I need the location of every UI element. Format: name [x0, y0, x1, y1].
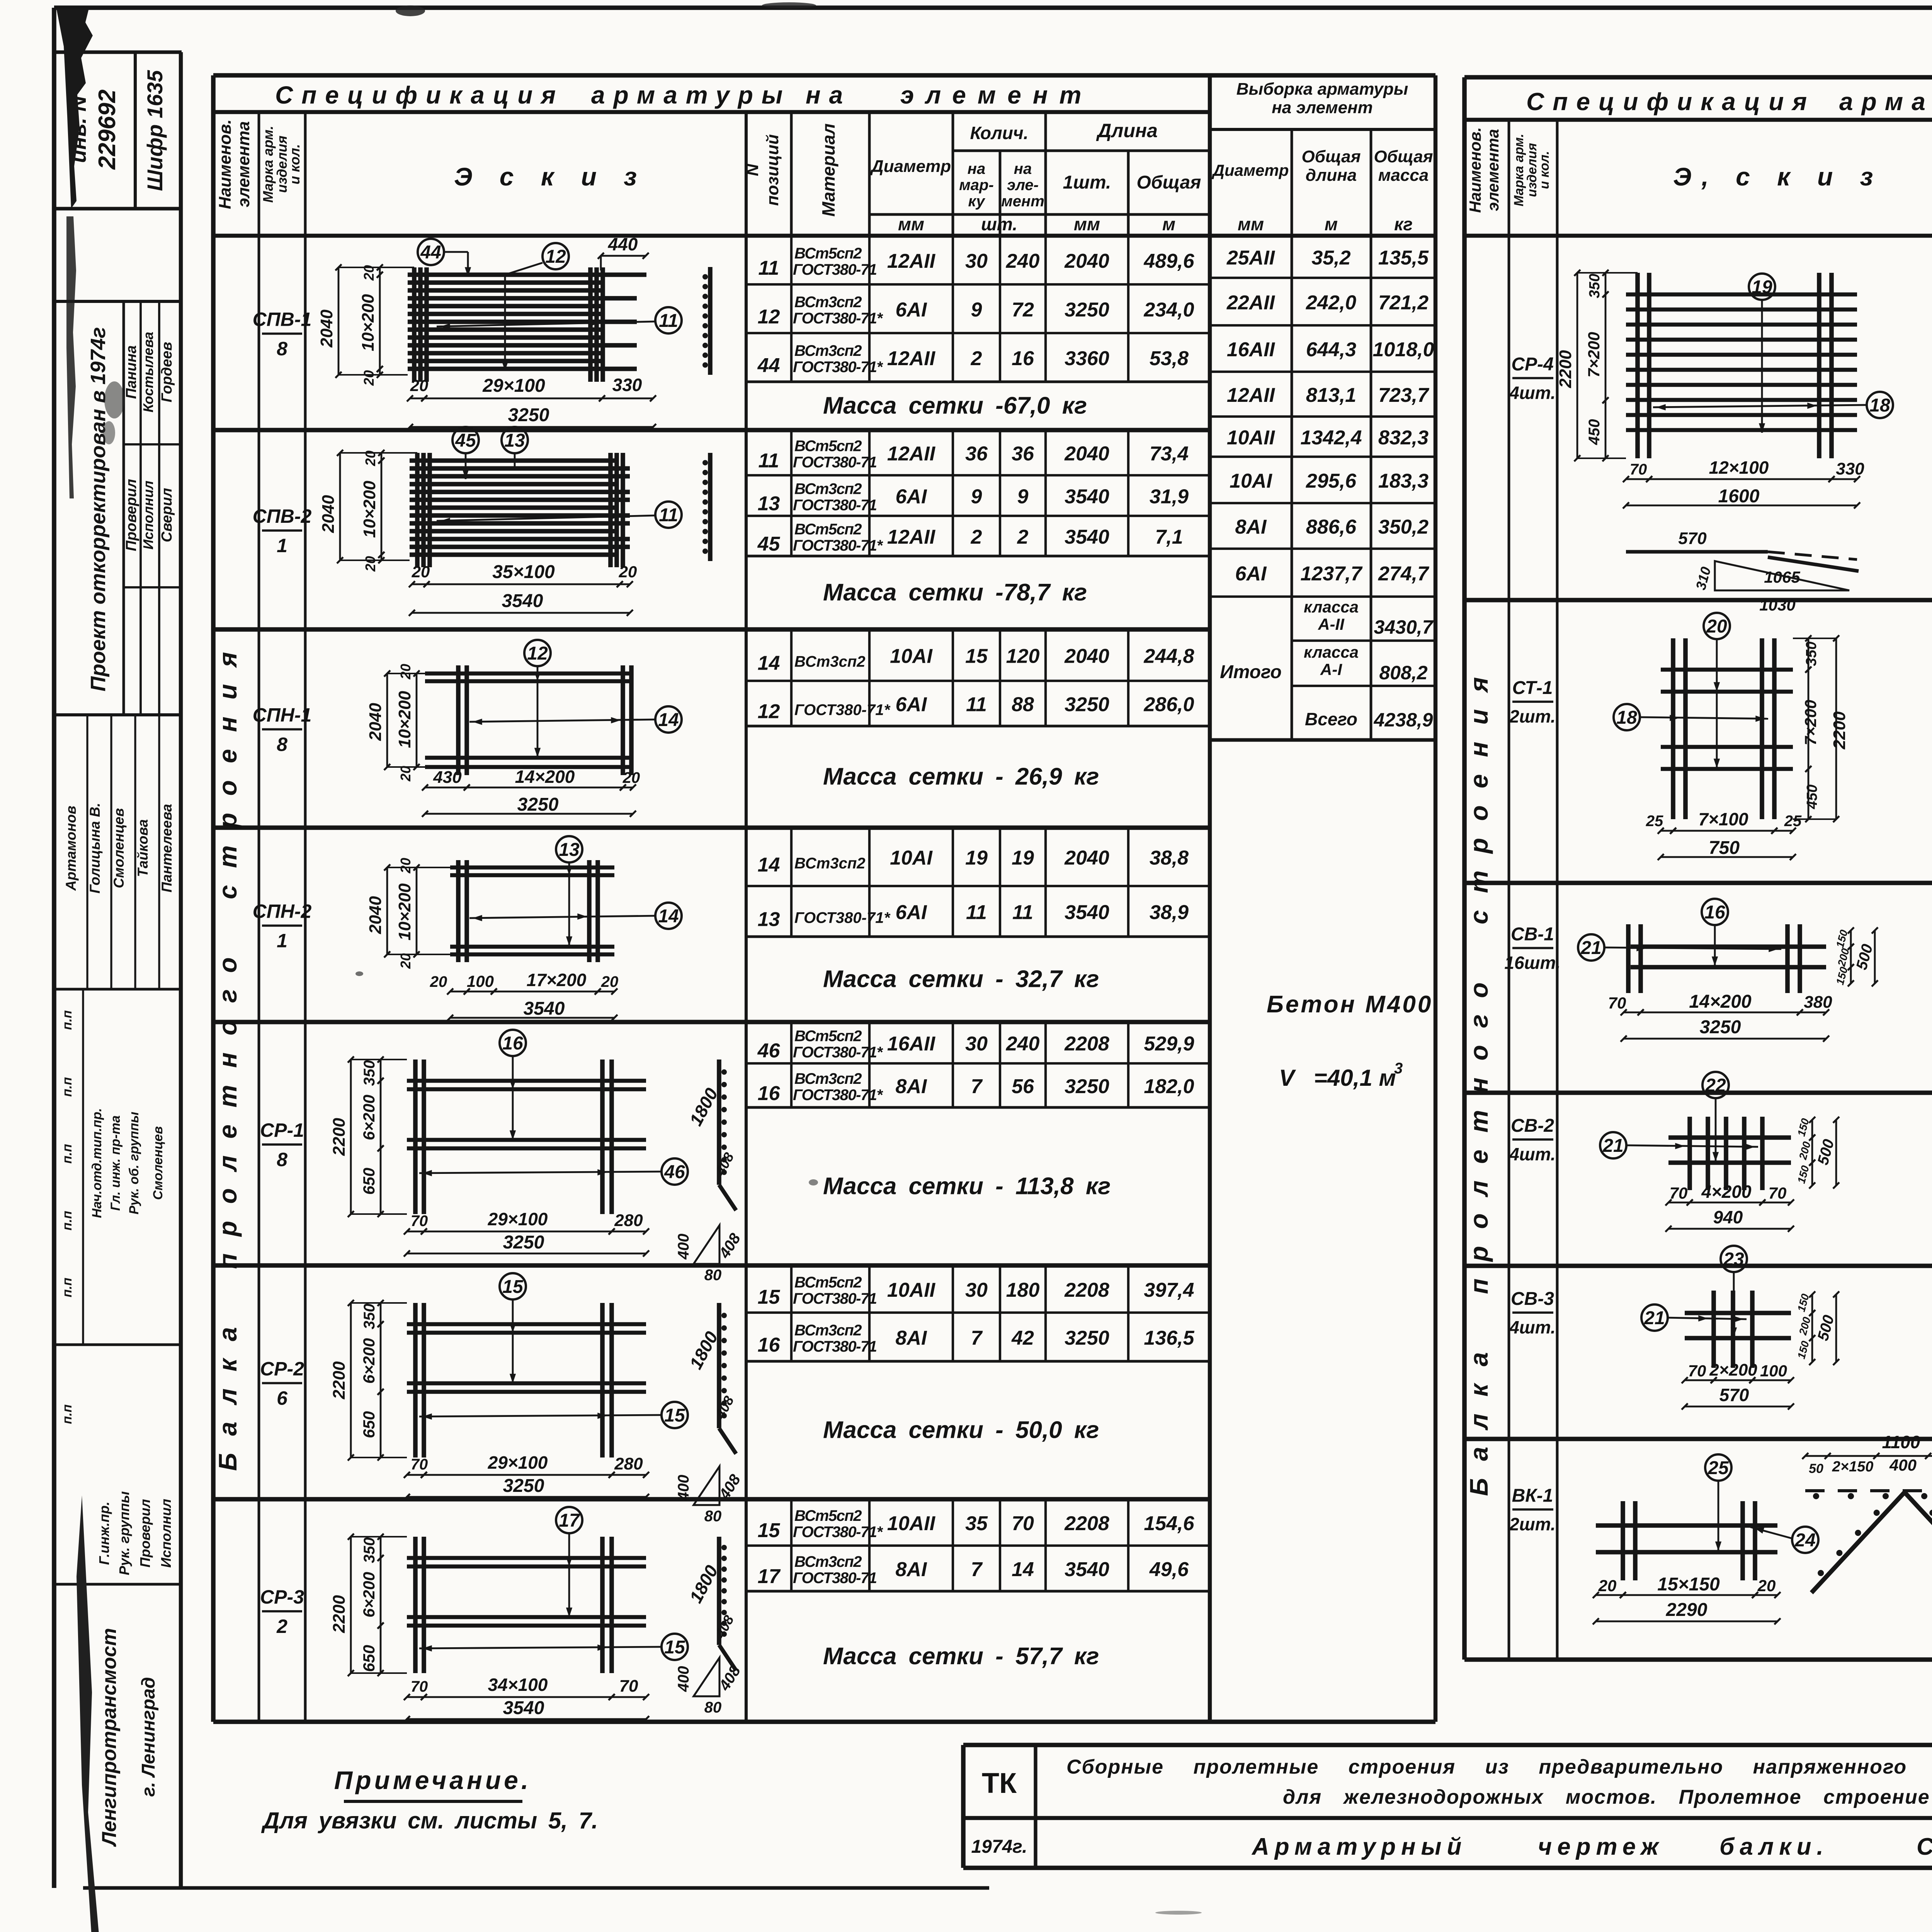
svg-text:Масса сетки -78,7 кг: Масса сетки -78,7 кг [823, 579, 1087, 606]
svg-text:650: 650 [360, 1645, 378, 1672]
svg-text:ГОСТ380-71*: ГОСТ380-71* [793, 359, 883, 376]
svg-text:16: 16 [1704, 902, 1725, 923]
svg-text:180: 180 [1006, 1279, 1040, 1301]
svg-text:229692: 229692 [94, 90, 121, 170]
svg-text:4×200: 4×200 [1701, 1182, 1752, 1202]
svg-text:8: 8 [277, 734, 287, 755]
left table element label СПВ-1/8 [253, 309, 312, 360]
svg-text:6АI: 6АI [896, 486, 927, 508]
svg-text:2шт.: 2шт. [1509, 706, 1556, 726]
right spec table outer frame and header row [1464, 77, 1932, 1660]
svg-text:СПН-1: СПН-1 [253, 704, 312, 726]
svg-text:1: 1 [277, 535, 287, 556]
svg-text:11: 11 [759, 257, 779, 279]
svg-text:Проверил: Проверил [137, 1499, 153, 1567]
svg-text:20: 20 [622, 769, 640, 786]
svg-text:16АII: 16АII [887, 1033, 936, 1055]
svg-text:14: 14 [758, 854, 780, 876]
svg-text:ВСт5сп2: ВСт5сп2 [794, 1507, 862, 1524]
svg-text:2200: 2200 [1830, 711, 1849, 750]
svg-text:450: 450 [1586, 419, 1603, 446]
svg-text:Ленгипротрансмост: Ленгипротрансмост [98, 1628, 121, 1847]
svg-text:СПН-2: СПН-2 [253, 901, 312, 922]
svg-text:650: 650 [360, 1411, 378, 1438]
svg-text:88: 88 [1012, 694, 1034, 716]
svg-text:ГОСТ380-71*: ГОСТ380-71* [793, 1087, 883, 1104]
sketch СПВ-1 dense mesh with bars pos 11/12/44 [317, 234, 710, 430]
svg-text:п.п: п.п [60, 1211, 75, 1230]
svg-text:15×150: 15×150 [1657, 1574, 1720, 1595]
svg-text:12АII: 12АII [887, 443, 936, 465]
svg-text:16АII: 16АII [1227, 338, 1276, 361]
svg-text:10АI: 10АI [890, 645, 933, 668]
left table block СПВ-1 data rows [746, 236, 1210, 419]
svg-text:70: 70 [1670, 1184, 1688, 1202]
left spec table outer frame and header row [213, 75, 1435, 1722]
svg-text:14×200: 14×200 [515, 767, 575, 787]
svg-text:Проверил: Проверил [123, 479, 139, 551]
svg-text:70: 70 [619, 1677, 638, 1696]
svg-text:Диаметр: Диаметр [1212, 161, 1289, 179]
svg-text:244,8: 244,8 [1143, 645, 1194, 668]
svg-text:15: 15 [502, 1277, 524, 1297]
svg-text:35,2: 35,2 [1311, 247, 1350, 269]
svg-text:15: 15 [758, 1519, 781, 1542]
svg-text:286,0: 286,0 [1143, 694, 1194, 716]
svg-text:20: 20 [601, 973, 619, 990]
svg-text:Марка арм.: Марка арм. [1512, 134, 1526, 206]
svg-text:940: 940 [1713, 1207, 1743, 1227]
svg-text:808,2: 808,2 [1379, 662, 1427, 684]
svg-text:330: 330 [1836, 459, 1864, 478]
svg-text:16: 16 [502, 1033, 523, 1054]
svg-text:570: 570 [1719, 1385, 1749, 1405]
svg-text:135,5: 135,5 [1378, 247, 1429, 269]
svg-text:2040: 2040 [366, 703, 385, 741]
svg-text:20: 20 [410, 376, 429, 395]
svg-text:11: 11 [659, 505, 678, 526]
svg-text:2×200: 2×200 [1709, 1361, 1757, 1379]
svg-text:2290: 2290 [1666, 1600, 1708, 1620]
svg-text:136,5: 136,5 [1144, 1327, 1194, 1349]
svg-text:3540: 3540 [524, 998, 565, 1019]
svg-text:2: 2 [971, 347, 982, 370]
svg-text:2040: 2040 [319, 495, 338, 533]
note Примечание [261, 1766, 598, 1833]
svg-text:100: 100 [1760, 1362, 1787, 1380]
svg-text:38,8: 38,8 [1150, 847, 1189, 869]
svg-text:2шт.: 2шт. [1509, 1514, 1556, 1534]
svg-text:20: 20 [362, 556, 378, 572]
svg-text:Общая: Общая [1137, 172, 1201, 193]
svg-text:46: 46 [757, 1040, 781, 1062]
svg-text:на: на [806, 81, 851, 109]
svg-text:70: 70 [1688, 1362, 1706, 1380]
svg-text:2: 2 [276, 1616, 287, 1637]
svg-text:для железнодорожных мостов.: для железнодорожных мостов. Пролетное ст… [1283, 1786, 1932, 1808]
svg-text:ГОСТ380-71*: ГОСТ380-71* [794, 910, 891, 927]
svg-text:350: 350 [1803, 641, 1820, 666]
svg-text:38,9: 38,9 [1150, 901, 1189, 924]
svg-text:29×100: 29×100 [482, 376, 545, 396]
svg-text:813,1: 813,1 [1306, 384, 1356, 406]
sketch СР-1 mesh pos 16/46 with section detail [330, 1030, 744, 1284]
svg-text:20: 20 [398, 766, 413, 782]
svg-text:А-I: А-I [1320, 660, 1342, 679]
svg-text:кг: кг [1394, 214, 1413, 234]
svg-text:ГОСТ380-71: ГОСТ380-71 [793, 1290, 877, 1307]
svg-text:25: 25 [1708, 1458, 1729, 1478]
sketch СПН-2 sparse mesh pos 13/14 [366, 836, 682, 1021]
svg-text:ГОСТ380-71: ГОСТ380-71 [793, 454, 877, 471]
scan paper edge streak bottom left [77, 1495, 100, 1932]
svg-text:20: 20 [398, 953, 413, 969]
left table block СПВ-2 data rows [213, 430, 1210, 606]
svg-text:750: 750 [1709, 838, 1740, 858]
svg-text:Гордеев: Гордеев [159, 342, 175, 403]
svg-text:на элемент: на элемент [1272, 98, 1373, 117]
svg-text:120: 120 [1006, 645, 1040, 668]
svg-text:3540: 3540 [502, 591, 543, 611]
svg-text:Нач.отд.тип.пр.: Нач.отд.тип.пр. [90, 1108, 104, 1218]
svg-text:м: м [1325, 214, 1338, 234]
svg-text:12АII: 12АII [887, 347, 936, 370]
svg-text:Для увязки см. листы 5, 7.: Для увязки см. листы 5, 7. [261, 1808, 598, 1833]
svg-text:7,1: 7,1 [1155, 526, 1183, 548]
svg-text:20: 20 [412, 563, 430, 581]
svg-text:1030: 1030 [1759, 596, 1795, 614]
svg-text:17: 17 [758, 1565, 781, 1588]
svg-text:Спецификация: Спецификация [275, 81, 564, 109]
svg-text:Пантелеева: Пантелеева [159, 804, 175, 892]
svg-text:Балка пролетного строения: Балка пролетного строения [213, 635, 242, 1471]
svg-text:3250: 3250 [503, 1232, 544, 1253]
svg-text:ГОСТ380-71: ГОСТ380-71 [793, 497, 877, 514]
svg-text:15: 15 [664, 1405, 685, 1426]
svg-text:7×200: 7×200 [1801, 700, 1820, 745]
svg-text:3250: 3250 [1065, 1327, 1109, 1349]
stamp column: names row Артамонов..Пантелеева [54, 715, 181, 989]
svg-text:Масса сетки - 113,8 кг: Масса сетки - 113,8 кг [823, 1173, 1111, 1200]
svg-text:3430,7: 3430,7 [1374, 616, 1434, 638]
left table element label СПН-2/1 [253, 901, 312, 952]
svg-text:12: 12 [758, 306, 780, 328]
svg-text:ГОСТ380-71*: ГОСТ380-71* [793, 1044, 883, 1061]
svg-text:ВСт5сп2: ВСт5сп2 [794, 438, 862, 455]
svg-text:Длина: Длина [1096, 120, 1158, 141]
svg-text:22АII: 22АII [1226, 292, 1276, 314]
svg-text:Сборные пролетные строения: Сборные пролетные строения из предварите… [1066, 1756, 1932, 1778]
left table element label СПВ-2/1 [253, 505, 312, 556]
title block TK and year cells [971, 1767, 1027, 1857]
svg-text:и кол.: и кол. [287, 144, 303, 185]
svg-text:элемента: элемента [234, 121, 253, 207]
svg-text:11: 11 [966, 901, 987, 924]
svg-text:6АI: 6АI [896, 299, 927, 321]
svg-text:70: 70 [1630, 461, 1647, 478]
svg-text:Арматурный: Арматурный [1251, 1833, 1467, 1860]
svg-text:12АII: 12АII [1227, 384, 1276, 406]
svg-text:400: 400 [675, 1234, 692, 1260]
svg-text:2200: 2200 [330, 1361, 349, 1400]
svg-text:529,9: 529,9 [1144, 1033, 1194, 1055]
svg-text:3540: 3540 [1065, 901, 1109, 924]
left table element label СР-3/2 [260, 1586, 304, 1637]
svg-text:3540: 3540 [1065, 526, 1109, 548]
svg-text:ГОСТ380-71*: ГОСТ380-71* [793, 1524, 883, 1541]
title block frame [963, 1695, 1932, 1868]
svg-text:400: 400 [675, 1475, 692, 1501]
svg-text:8: 8 [277, 338, 287, 360]
svg-text:100: 100 [467, 972, 494, 990]
svg-text:4шт.: 4шт. [1509, 1144, 1556, 1164]
svg-text:п.п: п.п [60, 1010, 75, 1030]
svg-text:10×200: 10×200 [359, 294, 378, 351]
svg-text:Масса сетки -67,0 кг: Масса сетки -67,0 кг [823, 393, 1087, 419]
svg-text:2: 2 [1017, 526, 1029, 548]
svg-text:Рук. группы: Рук. группы [116, 1491, 132, 1575]
svg-text:44: 44 [757, 354, 780, 377]
left table block СР-3 data rows [213, 1499, 1210, 1670]
sketch СТ-1 tall mesh pos 18/20 [1614, 613, 1849, 860]
svg-text:12АII: 12АII [887, 250, 936, 272]
svg-text:позиций: позиций [763, 134, 782, 206]
svg-text:СР-3: СР-3 [260, 1586, 304, 1608]
svg-text:36: 36 [1012, 443, 1034, 465]
sketch ВК-1 mesh and bent frame pos 24/25 [1593, 1432, 1932, 1624]
svg-text:СПВ-2: СПВ-2 [253, 505, 312, 527]
svg-text:46: 46 [664, 1162, 685, 1182]
right table block СВ-3 data rows [1464, 1266, 1932, 1406]
svg-text:14×200: 14×200 [1689, 992, 1752, 1012]
svg-text:1065: 1065 [1764, 568, 1800, 586]
svg-text:1237,7: 1237,7 [1300, 563, 1362, 585]
svg-text:масса: масса [1378, 166, 1429, 185]
svg-text:ГОСТ380-71: ГОСТ380-71 [793, 1338, 877, 1355]
svg-text:1600: 1600 [1718, 486, 1760, 507]
svg-text:6×200: 6×200 [360, 1572, 378, 1617]
svg-text:21: 21 [1580, 938, 1601, 958]
svg-text:3540: 3540 [1065, 1558, 1109, 1581]
svg-text:ВСт3сп2: ВСт3сп2 [794, 1322, 862, 1339]
svg-text:8: 8 [277, 1149, 287, 1170]
svg-text:53,8: 53,8 [1150, 347, 1189, 370]
title block sheet name Арматурный чертеж балки Спецификация [1251, 1833, 1932, 1860]
svg-text:2040: 2040 [1064, 250, 1109, 272]
left table block СР-1 data rows [213, 1022, 1210, 1200]
svg-text:234,0: 234,0 [1143, 299, 1194, 321]
svg-text:СР-2: СР-2 [260, 1358, 304, 1380]
svg-text:19: 19 [1012, 847, 1034, 869]
svg-text:чертеж: чертеж [1538, 1833, 1664, 1860]
svg-text:ГОСТ380-71*: ГОСТ380-71* [794, 702, 891, 719]
svg-text:34×100: 34×100 [488, 1675, 548, 1695]
svg-text:30: 30 [965, 250, 988, 272]
sketch СВ-2 small mesh pos 21/22 [1600, 1072, 1839, 1232]
svg-text:Панина: Панина [123, 345, 139, 399]
right vertical label Балка пролетного строения [1464, 660, 1493, 1496]
svg-text:и кол.: и кол. [1537, 151, 1552, 189]
svg-text:832,3: 832,3 [1378, 427, 1429, 449]
svg-text:ГОСТ380-71*: ГОСТ380-71* [793, 310, 883, 327]
svg-text:на: на [1014, 160, 1032, 177]
svg-text:Всего: Всего [1305, 709, 1357, 729]
sketch СВ-1 long flat mesh pos 21/16 [1578, 899, 1932, 1042]
svg-text:СВ-3: СВ-3 [1511, 1289, 1554, 1309]
svg-text:23: 23 [1723, 1249, 1744, 1270]
svg-text:240: 240 [1006, 250, 1040, 272]
svg-text:Э с к и з: Э с к и з [454, 162, 647, 191]
svg-text:п.п: п.п [60, 1277, 75, 1297]
svg-text:14: 14 [758, 652, 780, 675]
svg-text:8АI: 8АI [1235, 516, 1267, 538]
sketch СР-4 wide mesh pos 18/19 [1556, 270, 1932, 614]
document number 556/15-9 note above title [0, 0, 0, 0]
svg-text:м: м [1162, 214, 1175, 234]
svg-text:ГОСТ380-71: ГОСТ380-71 [793, 261, 877, 278]
left vertical label Балки пролетного строения [213, 635, 242, 1471]
svg-text:17×200: 17×200 [527, 970, 587, 990]
svg-text:10×200: 10×200 [395, 883, 414, 940]
svg-text:30: 30 [965, 1033, 988, 1055]
svg-text:8АI: 8АI [896, 1075, 927, 1098]
svg-text:ВСт5сп2: ВСт5сп2 [794, 521, 862, 538]
svg-text:72: 72 [1012, 299, 1034, 321]
right table block СВ-2 data rows [1464, 1093, 1932, 1242]
svg-text:Исполнил: Исполнил [158, 1499, 174, 1568]
svg-text:49,6: 49,6 [1149, 1558, 1189, 1581]
svg-text:СР-1: СР-1 [260, 1119, 304, 1141]
svg-text:ТК: ТК [982, 1767, 1017, 1799]
svg-text:70: 70 [411, 1213, 428, 1230]
svg-text:45: 45 [757, 533, 781, 555]
left table block СР-2 data rows [213, 1265, 1210, 1444]
svg-text:15: 15 [965, 645, 988, 668]
svg-text:280: 280 [614, 1454, 643, 1473]
svg-text:20: 20 [398, 664, 413, 680]
svg-text:7: 7 [971, 1558, 983, 1581]
svg-text:Марка арм.: Марка арм. [260, 126, 276, 202]
stamp column: inventory box инв.N 229692 / Шифр 1635 [54, 52, 182, 1888]
svg-text:элемента: элемента [1484, 129, 1502, 211]
svg-text:класса: класса [1304, 643, 1359, 661]
svg-text:Выборка арматуры: Выборка арматуры [1236, 80, 1408, 99]
svg-text:7×100: 7×100 [1698, 809, 1748, 829]
svg-text:п.п: п.п [60, 1404, 75, 1424]
left table block СПН-1 data rows [213, 629, 1210, 790]
svg-text:СПВ-1: СПВ-1 [253, 309, 312, 330]
left table block СПН-2 data rows [213, 828, 1210, 993]
svg-text:56: 56 [1012, 1075, 1034, 1098]
svg-text:350: 350 [361, 1537, 378, 1563]
svg-text:20: 20 [619, 563, 637, 581]
svg-text:36: 36 [965, 443, 988, 465]
svg-text:3360: 3360 [1065, 347, 1109, 370]
svg-text:9: 9 [1017, 486, 1029, 508]
svg-text:73,4: 73,4 [1150, 443, 1189, 465]
svg-text:Примечание.: Примечание. [334, 1766, 531, 1794]
svg-text:3250: 3250 [503, 1476, 544, 1496]
svg-text:Итого: Итого [1220, 662, 1282, 682]
svg-text:Г.инж.пр.: Г.инж.пр. [96, 1502, 112, 1565]
svg-text:19: 19 [1752, 277, 1772, 298]
svg-text:арматуры: арматуры [1839, 88, 1932, 116]
svg-text:эле-: эле- [1007, 177, 1039, 194]
svg-text:1: 1 [277, 930, 287, 952]
svg-text:Шифр 1635: Шифр 1635 [143, 70, 167, 191]
svg-text:430: 430 [433, 768, 462, 787]
stamp column: Проект откорректирован в 1974г block [54, 301, 181, 715]
right table block СТ-1 data rows [1464, 600, 1932, 801]
svg-text:3250: 3250 [1065, 694, 1109, 716]
svg-text:12АII: 12АII [887, 526, 936, 548]
svg-text:16: 16 [758, 1082, 781, 1105]
svg-text:V: V [1279, 1065, 1296, 1091]
svg-text:20: 20 [1598, 1577, 1617, 1595]
svg-text:70: 70 [1608, 994, 1626, 1012]
svg-text:45: 45 [455, 430, 476, 451]
svg-text:29×100: 29×100 [488, 1452, 548, 1473]
svg-text:Рук. об. группы: Рук. об. группы [127, 1112, 141, 1214]
svg-text:3540: 3540 [503, 1698, 544, 1718]
svg-text:3250: 3250 [517, 794, 559, 815]
svg-text:ВСт3сп2: ВСт3сп2 [794, 342, 862, 359]
svg-text:30: 30 [965, 1279, 988, 1301]
svg-text:18: 18 [1616, 707, 1637, 728]
svg-text:Масса сетки - 50,0 кг: Масса сетки - 50,0 кг [823, 1417, 1099, 1444]
svg-text:13: 13 [758, 908, 780, 931]
svg-text:Наименов.: Наименов. [216, 119, 235, 209]
svg-text:25: 25 [1784, 813, 1802, 830]
svg-text:12: 12 [545, 247, 566, 267]
svg-text:20: 20 [1706, 616, 1727, 637]
svg-text:шт.: шт. [981, 214, 1017, 234]
svg-text:350: 350 [1587, 274, 1603, 298]
svg-text:20: 20 [398, 858, 413, 874]
svg-text:ВСт3сп2: ВСт3сп2 [794, 653, 866, 670]
svg-text:2200: 2200 [330, 1118, 349, 1156]
svg-text:24: 24 [1794, 1530, 1815, 1551]
svg-text:ВСт5сп2: ВСт5сп2 [794, 245, 862, 262]
left vyborka Итого totals [1210, 598, 1435, 740]
svg-text:ВСт3сп2: ВСт3сп2 [794, 481, 862, 498]
svg-text:3540: 3540 [1065, 486, 1109, 508]
svg-text:13: 13 [758, 493, 780, 515]
svg-text:элемент: элемент [900, 81, 1093, 109]
svg-text:ВСт3сп2: ВСт3сп2 [794, 1070, 862, 1087]
svg-text:380: 380 [1804, 993, 1832, 1012]
svg-text:Сверил: Сверил [159, 488, 175, 543]
svg-text:10×200: 10×200 [395, 690, 414, 748]
svg-text:10АII: 10АII [1227, 427, 1276, 449]
svg-text:22: 22 [1705, 1075, 1726, 1096]
svg-text:Костылева: Костылева [140, 332, 156, 413]
svg-text:6АI: 6АI [1235, 563, 1267, 585]
svg-text:2200: 2200 [330, 1595, 349, 1633]
svg-text:10×200: 10×200 [360, 480, 379, 538]
svg-text:182,0: 182,0 [1144, 1075, 1194, 1098]
svg-text:295,6: 295,6 [1306, 470, 1357, 492]
svg-text:7: 7 [971, 1327, 983, 1349]
svg-text:Наименов.: Наименов. [1466, 127, 1484, 213]
title block project description text [1066, 1756, 1932, 1808]
svg-text:Общая: Общая [1302, 147, 1361, 166]
svg-text:А-II: А-II [1318, 615, 1345, 633]
svg-text:16: 16 [1012, 347, 1034, 370]
svg-text:7: 7 [971, 1075, 983, 1098]
svg-text:=40,1 м: =40,1 м [1314, 1065, 1396, 1091]
svg-text:г. Ленинград: г. Ленинград [138, 1677, 159, 1797]
